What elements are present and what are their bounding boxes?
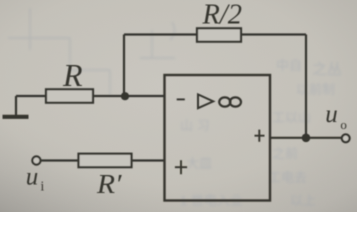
- svg-text:之丛: 之丛: [312, 61, 342, 78]
- svg-text:以上: 以上: [290, 193, 316, 208]
- svg-text:R′: R′: [96, 169, 123, 199]
- svg-text:山 习: 山 习: [180, 118, 210, 133]
- wire: feedback right vertical: [305, 35, 307, 138]
- wire: inverting input (ground to op-amp): [16, 95, 165, 97]
- svg-text:u: u: [325, 101, 338, 128]
- wire: non-inverting input: [41, 159, 165, 161]
- op-amp triangle symbol: [198, 94, 213, 108]
- svg-text:大皿: 大皿: [186, 156, 212, 171]
- wire: feedback left vertical: [123, 35, 125, 97]
- svg-text:工电去: 工电去: [268, 170, 307, 185]
- op-amp plus input label: [175, 160, 187, 174]
- terminal u_i: [32, 156, 40, 164]
- svg-text:R/2: R/2: [201, 0, 242, 31]
- svg-text:R: R: [62, 57, 83, 93]
- wire: ground lead vertical: [15, 96, 17, 115]
- node: output junction: [302, 134, 311, 143]
- svg-text:以前制: 以前制: [296, 82, 335, 97]
- op-amp infinity gain symbol: [219, 97, 230, 106]
- svg-text:中自: 中自: [276, 58, 302, 73]
- svg-text:i: i: [41, 179, 45, 194]
- svg-text:o: o: [340, 117, 347, 132]
- ground: [3, 115, 29, 119]
- op-amp U1 body: [165, 75, 271, 201]
- resistor R: [46, 89, 93, 102]
- terminal u_o: [342, 134, 350, 142]
- svg-text:u: u: [26, 164, 39, 191]
- wire: feedback top horizontal: [124, 33, 306, 35]
- svg-text:之前: 之前: [272, 146, 298, 161]
- circuit drawing: [3, 28, 350, 200]
- faint bleed-through marks (reverse side of page): [8, 8, 342, 208]
- op-amp minus input label: [177, 98, 185, 100]
- resistor R': [79, 154, 132, 168]
- resistor R/2: [197, 28, 241, 41]
- wire: output: [270, 137, 342, 139]
- op-amp output plus label: [255, 130, 265, 142]
- node: junction at inverting input: [121, 92, 129, 100]
